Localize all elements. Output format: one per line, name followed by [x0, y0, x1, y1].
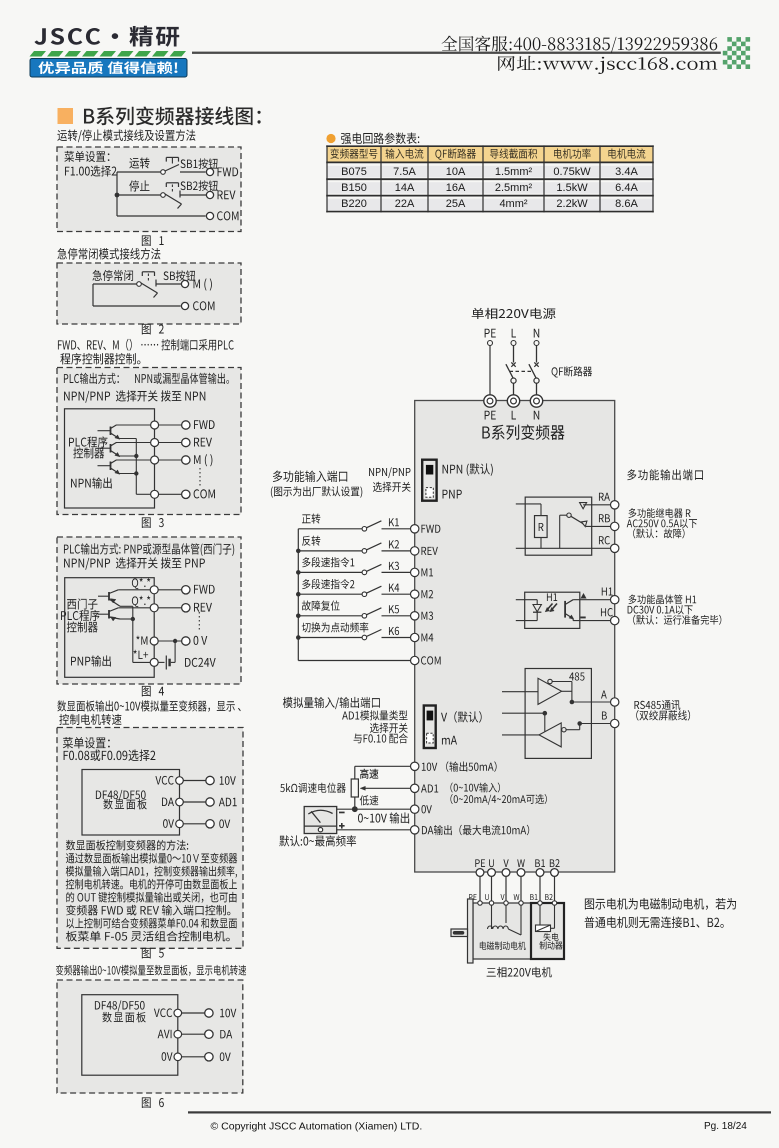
svg-text:0.75kW: 0.75kW	[553, 166, 591, 178]
svg-text:8.6A: 8.6A	[615, 198, 638, 210]
svg-text:© Copyright JSCC Automation (X: © Copyright JSCC Automation (Xiamen) LTD…	[211, 1121, 423, 1133]
svg-text:10A: 10A	[446, 166, 466, 178]
svg-text:2.5mm²: 2.5mm²	[495, 182, 533, 194]
svg-text:7.5A: 7.5A	[393, 166, 416, 178]
svg-text:2.2kW: 2.2kW	[556, 198, 588, 210]
svg-text:B150: B150	[341, 182, 367, 194]
svg-text:4mm²: 4mm²	[499, 198, 527, 210]
svg-text:3.4A: 3.4A	[615, 166, 638, 178]
svg-text:1.5kW: 1.5kW	[556, 182, 588, 194]
svg-text:22A: 22A	[395, 198, 415, 210]
svg-text:B220: B220	[341, 198, 367, 210]
svg-text:16A: 16A	[446, 182, 466, 194]
svg-text:1.5mm²: 1.5mm²	[495, 166, 533, 178]
svg-text:25A: 25A	[446, 198, 466, 210]
svg-text:B075: B075	[341, 166, 367, 178]
svg-text:6.4A: 6.4A	[615, 182, 638, 194]
svg-text:Pg. 18/24: Pg. 18/24	[704, 1121, 747, 1132]
svg-text:14A: 14A	[395, 182, 415, 194]
